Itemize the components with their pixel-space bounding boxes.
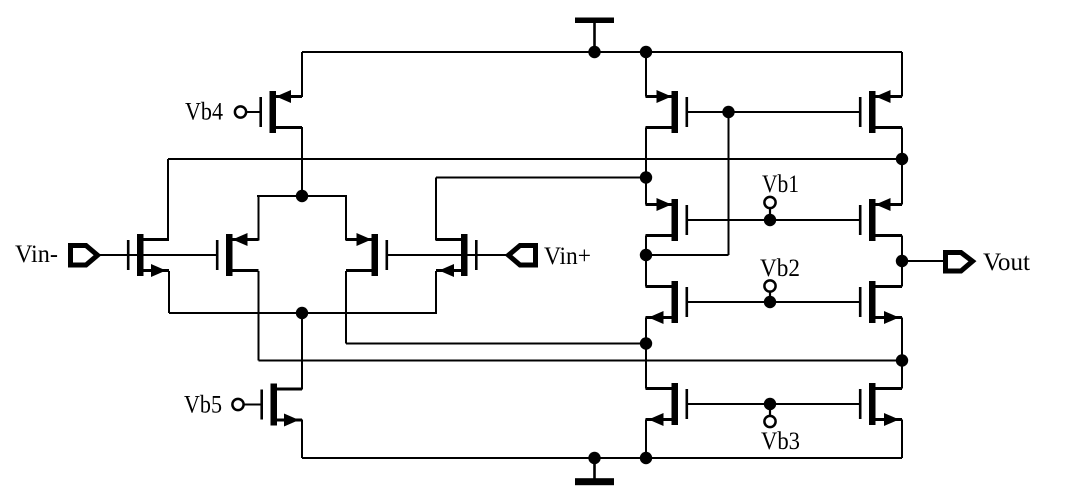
- svg-text:Vin+: Vin+: [544, 243, 591, 270]
- ground symbol stem: [593, 458, 596, 479]
- node NMOS tail: [296, 307, 308, 319]
- terminal Vb3: [769, 409, 771, 417]
- wire right trunk segment 4: [901, 318, 903, 389]
- svg-text:Vb1: Vb1: [762, 171, 799, 198]
- wire M4 source riser: [435, 271, 437, 313]
- wire Vin+ gate line: [386, 254, 509, 256]
- wire left trunk segment 2: [645, 128, 647, 205]
- wire Vb4 drain riser: [301, 127, 303, 196]
- node Vb1 tap: [764, 214, 776, 226]
- wire PMOS pair tail horizontal: [257, 195, 347, 197]
- wire M3 source riser: [345, 196, 347, 241]
- wire mirror diode connection vertical: [728, 112, 730, 255]
- transistor M1 NMOS input (Vin-): [127, 234, 169, 277]
- wire Vb3 gate bus row4: [687, 403, 859, 405]
- transistor M4 NMOS input (Vin+): [436, 234, 478, 277]
- svg-text:Vb4: Vb4: [185, 99, 223, 126]
- wire Vb4 gate lead: [246, 111, 260, 113]
- wire Vb5 gate lead: [244, 404, 261, 406]
- svg-text:Vb5: Vb5: [184, 392, 222, 419]
- power supply symbol VDD stem: [593, 22, 596, 52]
- transistor M6L PMOS cascode left (Vb1): [646, 198, 689, 241]
- wire Vin+ pad to gates: [500, 254, 509, 256]
- wire M1 source riser: [168, 271, 170, 313]
- svg-text:Vb2: Vb2: [760, 255, 800, 282]
- wire right trunk segment 5: [901, 420, 903, 459]
- transistor M8L NMOS sink left (Vb3): [646, 383, 689, 426]
- node folded cascode left lower: [640, 337, 652, 349]
- node bottom rail / trunk junction: [640, 452, 652, 464]
- terminal Vb1: [769, 208, 771, 216]
- svg-text:Vb3: Vb3: [761, 428, 800, 455]
- terminal Vb5: [232, 399, 243, 410]
- pad Vout: [946, 253, 973, 272]
- pad Vin-: [71, 246, 98, 266]
- transistor M6R PMOS cascode right (Vb1): [859, 198, 902, 241]
- node mirror gate junction: [722, 106, 734, 118]
- node top rail / cascode trunk junction: [640, 46, 652, 58]
- wire diode connection horizontal: [646, 254, 729, 256]
- wire top supply rail VDD: [302, 51, 902, 53]
- transistor M7R NMOS cascode right (Vb2): [859, 281, 902, 324]
- wire right trunk segment 3: [901, 236, 903, 287]
- wire Vin- pad to gates: [98, 254, 110, 256]
- terminal Vb2: [769, 291, 771, 298]
- transistor M7L NMOS cascode left (Vb2): [646, 281, 689, 324]
- wire M3 drain riser: [345, 271, 347, 344]
- node output: [896, 255, 908, 267]
- wire tail to Vb5 drain riser: [301, 313, 303, 390]
- transistor M5R PMOS mirror right: [859, 90, 902, 133]
- power supply symbol VDD bar: [575, 18, 614, 24]
- wire mirror gate bus row1: [687, 111, 859, 113]
- wire M3 drain fold (to left trunk): [346, 343, 647, 345]
- transistor M10 NMOS current source (Vb5): [260, 384, 302, 427]
- wire M4 drain riser: [435, 178, 437, 241]
- wire M1 drain riser: [167, 159, 169, 241]
- wire left trunk segment 3: [645, 236, 647, 287]
- transistor M2 PMOS input (Vin-): [216, 233, 259, 276]
- wire Vb1 gate bus row2: [687, 219, 859, 221]
- wire M2 drain riser: [258, 271, 260, 361]
- node ground stem junction: [588, 452, 600, 464]
- transistor M9 PMOS current source (Vb4): [259, 90, 302, 133]
- wire left trunk segment 4: [645, 318, 647, 389]
- wire NMOS pair tail horizontal: [169, 312, 437, 314]
- svg-text:Vin-: Vin-: [15, 241, 58, 268]
- wire Vb5 drain riser upper: [301, 313, 303, 389]
- node right trunk lower: [896, 354, 908, 366]
- node PMOS tail: [296, 190, 308, 202]
- wire right trunk segment 1: [901, 52, 903, 97]
- wire Vb5 source riser: [301, 420, 303, 459]
- node VDD stem junction: [588, 46, 600, 58]
- wire left trunk segment 1: [645, 52, 647, 97]
- wire node-A horizontal (M4 drain to folded node): [436, 177, 647, 179]
- wire second rail (M1 drain to mirror node): [168, 158, 902, 160]
- wire left trunk segment 5: [645, 420, 647, 459]
- wire M2 source riser: [258, 196, 260, 241]
- node Vb3 tap: [764, 398, 776, 410]
- wire M2 drain fold (to right trunk): [259, 360, 903, 362]
- wire right trunk segment 2: [901, 128, 903, 205]
- wire Vb2 gate bus row3: [687, 301, 859, 303]
- pad Vin+: [509, 246, 536, 266]
- ground symbol bar: [575, 478, 614, 485]
- wire bottom ground rail: [302, 457, 902, 459]
- transistor M5L PMOS mirror left: [646, 90, 689, 133]
- node diode connection / left trunk: [640, 249, 652, 261]
- wire Vout: [902, 260, 946, 262]
- node Vb2 tap: [764, 296, 776, 308]
- transistor M3 PMOS input (Vin+): [346, 233, 388, 276]
- node folded cascode left upper: [640, 171, 652, 183]
- transistor M8R NMOS sink right (Vb3): [859, 383, 902, 426]
- wire Vb4 source riser: [301, 52, 303, 97]
- wire Vin- gate line: [100, 254, 218, 256]
- terminal Vb4: [235, 106, 246, 117]
- node mirror/cascode right: [896, 153, 908, 165]
- svg-text:Vout: Vout: [983, 249, 1030, 276]
